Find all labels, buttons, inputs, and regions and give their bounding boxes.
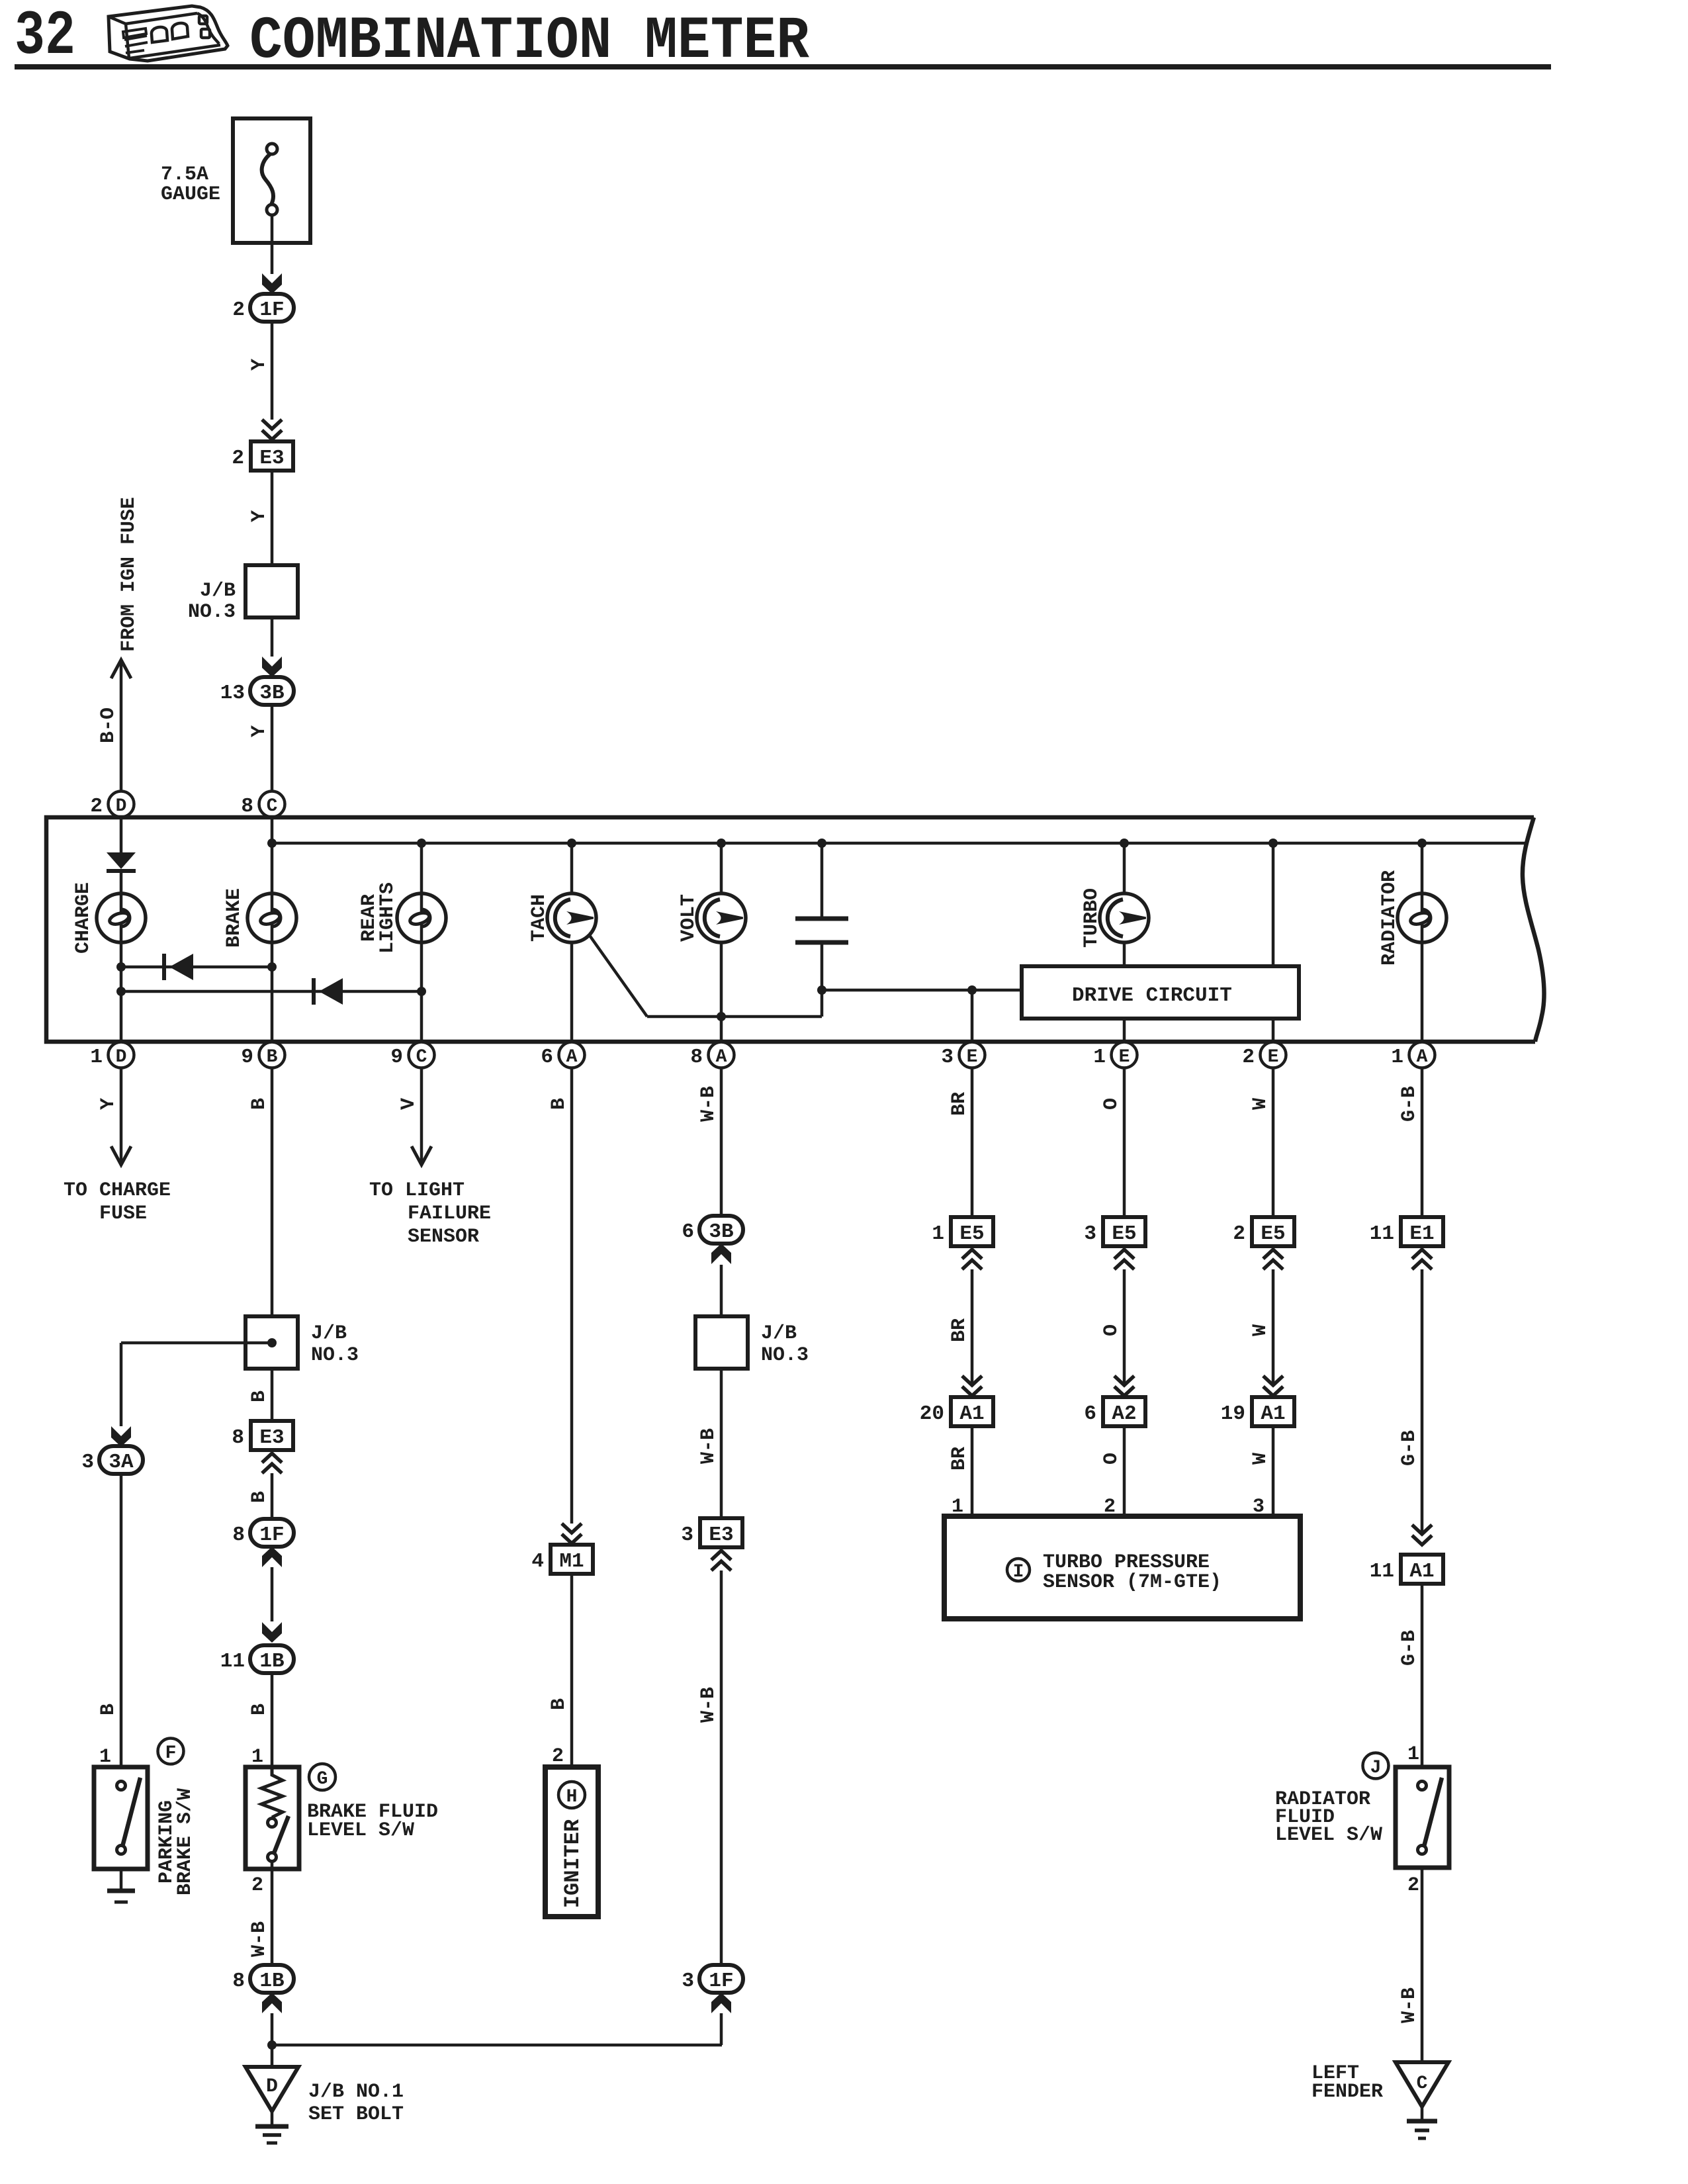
bus junction [817, 839, 826, 848]
connector 3(E5) [1084, 1217, 1145, 1246]
connector arrow into 1F [262, 273, 282, 294]
svg-text:W-B: W-B [697, 1086, 720, 1122]
header rule [15, 64, 1551, 69]
wire 3E3 to 3-1F [720, 1570, 723, 1965]
svg-text:2: 2 [232, 298, 245, 322]
svg-text:LEVEL S/W: LEVEL S/W [307, 1819, 414, 1842]
meter pin 3(E) [941, 1042, 985, 1069]
svg-text:2: 2 [232, 447, 244, 470]
indicator lamp REAR LIGHTS [397, 893, 446, 942]
bus junction [1120, 839, 1129, 848]
wire fuse to 1F [271, 243, 274, 274]
svg-text:NO.3: NO.3 [188, 601, 236, 623]
svg-text:O: O [1100, 1098, 1123, 1110]
svg-text:A2: A2 [1112, 1402, 1136, 1426]
igniter [545, 1767, 598, 1917]
svg-text:F: F [165, 1743, 177, 1764]
svg-text:2: 2 [251, 1874, 263, 1897]
svg-text:SET BOLT: SET BOLT [308, 2103, 404, 2126]
svg-text:NO.3: NO.3 [311, 1344, 359, 1367]
junction block J/B NO.3 (middle) [245, 1316, 298, 1369]
connector 2(E3) [232, 441, 293, 471]
connector 11(A1) [1370, 1555, 1443, 1584]
wire capacitor to tach line [821, 942, 824, 1017]
svg-text:2: 2 [1407, 1874, 1419, 1897]
svg-text:TO LIGHT: TO LIGHT [369, 1179, 465, 1202]
svg-text:E3: E3 [259, 1426, 284, 1449]
connector 6(A2) [1084, 1397, 1145, 1426]
svg-text:9: 9 [241, 1046, 253, 1069]
svg-text:FUSE: FUSE [99, 1203, 147, 1225]
wire 1F to ground bus [720, 2013, 723, 2045]
svg-text:W-B: W-B [697, 1687, 720, 1723]
wire J/B to 3B [271, 617, 274, 657]
gauge TACH [547, 893, 596, 942]
svg-text:2: 2 [1242, 1046, 1255, 1069]
wire bus to capacitor [821, 843, 824, 919]
svg-text:BRAKE S/W: BRAKE S/W [174, 1788, 197, 1895]
wire pin 1E to 3E5 [1123, 1068, 1126, 1217]
connector arrow into 3B [262, 657, 282, 677]
svg-text:A: A [1417, 1047, 1428, 1068]
svg-text:32: 32 [15, 1, 75, 72]
junction charge/diode row 1 [116, 962, 126, 972]
wire bus to REAR LIGHTS lamp [420, 843, 423, 894]
wire A1 to radiator switch [1421, 1584, 1424, 1767]
wire branch to 3A [120, 1343, 123, 1426]
svg-text:V: V [398, 1098, 420, 1110]
meter pin 2(E) [1242, 1042, 1286, 1069]
svg-text:W: W [1249, 1324, 1272, 1336]
bus junction [267, 839, 277, 848]
svg-text:H: H [566, 1787, 578, 1807]
svg-text:Y: Y [97, 1098, 120, 1110]
chevrons into 20A1 [962, 1376, 982, 1396]
svg-text:TURBO: TURBO [1081, 888, 1103, 948]
wire REAR LIGHTS lamp to pin 9C [420, 942, 423, 1043]
svg-text:B-O: B-O [97, 707, 120, 743]
svg-text:8: 8 [232, 1970, 245, 1993]
flow arrow to charge fuse [111, 1146, 131, 1165]
connector 2(E5) [1233, 1217, 1294, 1246]
svg-text:8: 8 [690, 1046, 703, 1069]
svg-text:B: B [97, 1704, 120, 1715]
svg-text:3: 3 [941, 1046, 954, 1069]
svg-text:C: C [1417, 2073, 1428, 2094]
ground (parking brake) [107, 1869, 135, 1902]
wire drive circuit to pin 2E [1272, 1019, 1275, 1043]
meter pin 6(A) [541, 1042, 584, 1069]
svg-text:FENDER: FENDER [1311, 2081, 1383, 2103]
internal supply bus wire [272, 842, 1526, 845]
svg-text:Y: Y [248, 510, 271, 522]
svg-text:E1: E1 [1409, 1222, 1434, 1246]
wire pin 2E to 2E5 [1272, 1068, 1275, 1217]
wire J/B to 3E3 [720, 1369, 723, 1518]
wire pin 1A to 11E1 [1421, 1068, 1424, 1217]
svg-text:3: 3 [1084, 1222, 1096, 1246]
wire bus to VOLT gauge [720, 843, 723, 894]
svg-text:D: D [266, 2075, 278, 2098]
svg-text:8: 8 [241, 795, 253, 818]
wire diode row 1 [121, 966, 272, 969]
svg-text:9: 9 [390, 1046, 403, 1069]
connector arrow into 8-1F [262, 1547, 282, 1567]
wire TACH to pin 6A [570, 942, 574, 1043]
combination meter unit box [46, 817, 1535, 1042]
svg-text:J/B: J/B [200, 580, 236, 602]
svg-text:B: B [248, 1098, 271, 1110]
chevrons below 2E5 [1263, 1250, 1283, 1269]
svg-text:13: 13 [220, 682, 245, 705]
wire 8E3 to 8-1F [271, 1473, 274, 1519]
svg-text:VOLT: VOLT [678, 894, 700, 942]
brake fluid level switch [245, 1767, 299, 1869]
connector 3(1F) [682, 1965, 743, 1993]
svg-text:C: C [416, 1047, 427, 1068]
chevrons into 6A2 [1114, 1376, 1134, 1396]
svg-text:TO CHARGE: TO CHARGE [64, 1179, 171, 1202]
ground (left fender) [1407, 2107, 1437, 2138]
wire radiator switch to left fender [1421, 1868, 1424, 2061]
bus junction [1268, 839, 1278, 848]
svg-text:IGNITER: IGNITER [560, 1819, 585, 1908]
svg-text:O: O [1100, 1453, 1123, 1465]
wire pin 1D to charge fuse [120, 1068, 123, 1163]
svg-text:BR: BR [948, 1092, 971, 1116]
connector 11(E1) [1370, 1217, 1443, 1246]
svg-text:BR: BR [948, 1447, 971, 1471]
wire ground bus horizontal [272, 2044, 722, 2047]
bus junction [1417, 839, 1427, 848]
svg-text:Y: Y [248, 359, 271, 371]
connector 8(E3) [232, 1421, 293, 1450]
svg-text:11: 11 [220, 1650, 245, 1673]
chevrons into 11A1 [1412, 1525, 1432, 1545]
svg-text:E: E [967, 1047, 978, 1068]
svg-text:C: C [267, 796, 278, 817]
svg-text:W-B: W-B [248, 1921, 271, 1957]
wire E3 to J/B No.3 [271, 471, 274, 565]
svg-text:2: 2 [90, 795, 103, 818]
wire E5 to A1 [971, 1269, 974, 1387]
wire 1B to ground point [271, 2013, 274, 2067]
svg-text:G-B: G-B [1398, 1630, 1421, 1666]
diode (rear lights to charge) [314, 978, 343, 1005]
svg-text:E3: E3 [709, 1524, 733, 1547]
svg-text:D: D [116, 796, 127, 817]
chevrons below 1E5 [962, 1250, 982, 1269]
meter pin 8(C) [241, 792, 285, 819]
svg-text:1: 1 [1407, 1743, 1419, 1766]
bus junction [717, 839, 726, 848]
combination meter icon [109, 6, 228, 61]
wire bus to TACH gauge [570, 843, 574, 894]
svg-text:G-B: G-B [1398, 1086, 1421, 1122]
bus junction [417, 839, 426, 848]
meter pin 1(D) [90, 1042, 134, 1069]
chevrons into 19A1 [1263, 1376, 1283, 1396]
svg-text:O: O [1100, 1324, 1123, 1336]
indicator lamp RADIATOR [1398, 893, 1446, 942]
svg-text:FAILURE: FAILURE [408, 1203, 491, 1225]
svg-text:B: B [248, 1704, 271, 1715]
connector 6(3B) [682, 1216, 743, 1244]
junction volt line [717, 1012, 726, 1021]
svg-text:G: G [317, 1769, 328, 1790]
svg-text:LIGHTS: LIGHTS [377, 882, 399, 954]
wire diode row 2 [121, 990, 422, 993]
wire VOLT to pin 8A [720, 942, 723, 1043]
svg-text:NO.3: NO.3 [761, 1344, 809, 1367]
wire TACH output horizontal [647, 1015, 822, 1019]
wire A2 to sensor pin 2 [1123, 1426, 1126, 1516]
wire bus to RADIATOR lamp [1421, 843, 1424, 894]
turbo pressure sensor [944, 1516, 1300, 1619]
svg-text:11: 11 [1370, 1222, 1394, 1246]
svg-text:BRAKE: BRAKE [223, 888, 245, 948]
svg-text:1: 1 [90, 1046, 103, 1069]
torn edge of meter box [1523, 817, 1544, 1042]
svg-text:3A: 3A [109, 1451, 134, 1474]
svg-text:B: B [548, 1098, 570, 1110]
svg-text:J/B: J/B [761, 1322, 797, 1345]
wire BRAKE lamp to pin 9B [271, 942, 274, 1043]
wire RADIATOR lamp to pin 1A [1421, 942, 1424, 1043]
meter pin 1(A) [1391, 1042, 1435, 1069]
svg-text:B: B [248, 1390, 271, 1402]
svg-text:4: 4 [531, 1550, 544, 1573]
svg-text:J/B NO.1: J/B NO.1 [308, 2081, 404, 2103]
wire pin 6A to M1 [570, 1068, 574, 1524]
junction ground bus [267, 2040, 277, 2050]
junction inside J/B [267, 1338, 277, 1347]
svg-text:3: 3 [682, 1970, 694, 1993]
svg-text:SENSOR: SENSOR [408, 1226, 479, 1248]
svg-text:1: 1 [1093, 1046, 1106, 1069]
connector arrow into 11-1B [262, 1622, 282, 1643]
gauge VOLT [697, 893, 746, 942]
svg-text:RADIATOR: RADIATOR [1378, 870, 1401, 966]
svg-text:M1: M1 [559, 1550, 584, 1573]
diode (charge line) [107, 852, 136, 871]
svg-text:7.5A: 7.5A [161, 163, 208, 186]
wire pin 3E to 1E5 [971, 1068, 974, 1217]
chevrons into M1 [562, 1524, 582, 1543]
wire bus to TURBO gauge [1123, 843, 1126, 894]
wire A1 to sensor pin 1 [971, 1426, 974, 1516]
wire junction to pin 3E [971, 990, 974, 1043]
junction block J/B NO.3 (top) [245, 565, 298, 617]
wire pin 9C to light failure sensor [420, 1068, 423, 1163]
svg-text:1F: 1F [259, 298, 284, 322]
parking brake switch [94, 1767, 148, 1869]
indicator lamp CHARGE [97, 893, 146, 942]
svg-text:2: 2 [1233, 1222, 1245, 1246]
meter pin 9(C) [390, 1042, 434, 1069]
wire 1B to brake fluid switch [271, 1673, 274, 1767]
svg-text:E5: E5 [1261, 1222, 1285, 1246]
wire to drive circuit [822, 989, 1022, 992]
capacitor [795, 919, 848, 942]
wire E1 to A1 [1421, 1269, 1424, 1535]
connector 3(3A) [81, 1446, 143, 1474]
wire 3B to J/B No.3 [720, 1265, 723, 1316]
wire J/B to 8E3 [271, 1369, 274, 1421]
connector 13(3B) [220, 677, 294, 705]
radiator fluid level switch [1396, 1767, 1449, 1868]
svg-text:3B: 3B [709, 1220, 733, 1244]
svg-text:6: 6 [682, 1220, 694, 1244]
svg-text:CHARGE: CHARGE [72, 882, 95, 954]
ground (set bolt) [255, 2111, 289, 2143]
svg-text:E: E [1119, 1047, 1130, 1068]
svg-text:8: 8 [232, 1524, 245, 1547]
svg-text:W: W [1249, 1453, 1272, 1465]
svg-text:19: 19 [1221, 1402, 1245, 1426]
svg-text:E3: E3 [259, 447, 284, 470]
junction capacitor/drive [817, 985, 826, 995]
svg-text:3: 3 [681, 1524, 693, 1547]
gauge TURBO [1100, 893, 1149, 942]
chevrons below 3E5 [1114, 1250, 1134, 1269]
svg-text:6: 6 [541, 1046, 553, 1069]
junction block J/B NO.3 (right) [695, 1316, 748, 1369]
drive circuit block [1022, 966, 1299, 1019]
connector 20(A1) [920, 1397, 993, 1426]
connector 1(E5) [932, 1217, 993, 1246]
connector 11(1B) [220, 1645, 294, 1673]
svg-text:A1: A1 [959, 1402, 984, 1426]
bus junction [567, 839, 576, 848]
svg-text:SENSOR (7M-GTE): SENSOR (7M-GTE) [1043, 1571, 1222, 1594]
chevrons below 3E3 [711, 1551, 731, 1570]
connector 19(A1) [1221, 1397, 1294, 1426]
wire pin 9B to J/B No.3 [271, 1068, 274, 1316]
svg-text:1F: 1F [709, 1970, 733, 1993]
junction brake/diode row 1 [267, 962, 277, 972]
connector 3(E3) [681, 1518, 742, 1547]
svg-text:DRIVE CIRCUIT: DRIVE CIRCUIT [1072, 984, 1232, 1007]
svg-text:W: W [1249, 1098, 1272, 1110]
svg-text:E: E [1268, 1047, 1279, 1068]
wire 3A to parking brake switch [120, 1474, 123, 1767]
meter pin 2(D) [90, 792, 134, 819]
svg-text:J: J [1370, 1758, 1382, 1778]
svg-text:E5: E5 [959, 1222, 984, 1246]
wire 1F to E3 [271, 322, 274, 420]
svg-text:2: 2 [552, 1745, 564, 1768]
svg-text:LEVEL S/W: LEVEL S/W [1275, 1824, 1382, 1846]
wire pin 8C to BRAKE lamp [271, 817, 274, 894]
svg-text:11: 11 [1370, 1560, 1394, 1583]
chevrons below 8E3 [262, 1453, 282, 1473]
wire bus to drive circuit [1272, 843, 1275, 966]
meter pin 8(A) [690, 1042, 734, 1069]
svg-text:D: D [116, 1047, 127, 1068]
flow arrow from IGN fuse [111, 660, 131, 678]
svg-text:B: B [248, 1491, 271, 1503]
junction charge/diode row 2 [116, 987, 126, 996]
svg-text:A: A [566, 1047, 578, 1068]
svg-text:FROM IGN FUSE: FROM IGN FUSE [118, 497, 140, 652]
svg-text:E5: E5 [1112, 1222, 1136, 1246]
chevrons below 11E1 [1412, 1250, 1432, 1269]
wire pin 8A to 6-3B [720, 1068, 723, 1216]
svg-text:1B: 1B [259, 1970, 284, 1993]
connector 2(1F) [232, 294, 294, 322]
wire J/B branch left [121, 1342, 272, 1345]
svg-text:1B: 1B [259, 1650, 284, 1673]
svg-text:1: 1 [1391, 1046, 1403, 1069]
connector arrow into 8-1B [262, 1993, 282, 2013]
svg-text:6: 6 [1084, 1402, 1096, 1426]
junction rear-lights/diode row 2 [417, 987, 426, 996]
svg-text:1F: 1F [259, 1524, 284, 1547]
svg-text:BR: BR [948, 1318, 971, 1342]
chevrons into E3 [262, 420, 282, 439]
connector arrow into 6-3B [711, 1244, 731, 1264]
ground bolt D (J/B No.1 set bolt) [245, 2067, 298, 2111]
svg-text:G-B: G-B [1398, 1430, 1421, 1466]
circled G [309, 1764, 335, 1790]
wire M1 to igniter [570, 1574, 574, 1767]
wire diode to CHARGE lamp [120, 871, 123, 894]
connector arrow into 3-1F [711, 1993, 731, 2013]
wire A1 to sensor pin 3 [1272, 1426, 1275, 1516]
svg-text:B: B [548, 1698, 570, 1710]
svg-text:3B: 3B [259, 682, 284, 705]
svg-text:GAUGE: GAUGE [161, 183, 220, 206]
svg-text:A1: A1 [1261, 1402, 1285, 1426]
svg-text:3: 3 [81, 1451, 94, 1474]
connector arrow into 3A [111, 1426, 131, 1447]
connector 8(1B) [232, 1965, 294, 1993]
wire pin 2D to diode [120, 817, 123, 854]
circled I [1007, 1559, 1030, 1582]
meter pin 9(B) [241, 1042, 285, 1069]
connector 8(1F) [232, 1519, 294, 1547]
svg-text:1: 1 [932, 1222, 944, 1246]
wire TACH output diagonal [589, 934, 647, 1017]
wire 8-1F to 11-1B [271, 1567, 274, 1621]
svg-text:Y: Y [248, 725, 271, 737]
circled J [1363, 1753, 1389, 1779]
svg-text:20: 20 [920, 1402, 944, 1426]
wire CHARGE lamp to pin 1D [120, 942, 123, 1043]
fuse 7.5A GAUGE [233, 118, 310, 243]
circled F [158, 1739, 184, 1764]
wire 3B to meter pin 8C [271, 705, 274, 792]
svg-text:8: 8 [232, 1426, 244, 1449]
svg-text:W-B: W-B [1398, 1987, 1421, 2023]
junction 3E line [967, 985, 977, 995]
flow arrow to light failure sensor [412, 1146, 431, 1165]
wire brake fluid switch to 8-1B [271, 1869, 274, 1965]
circled H [558, 1782, 585, 1808]
svg-text:TURBO PRESSURE: TURBO PRESSURE [1043, 1551, 1210, 1574]
svg-text:TACH: TACH [528, 894, 551, 942]
wire TURBO to drive circuit [1123, 942, 1126, 966]
wire E5 to A1 [1272, 1269, 1275, 1387]
svg-text:I: I [1013, 1562, 1024, 1582]
ground bolt C (left fender) [1396, 2062, 1448, 2107]
svg-text:A1: A1 [1409, 1560, 1434, 1583]
svg-text:W-B: W-B [697, 1428, 720, 1464]
diode (brake to charge) [164, 954, 193, 980]
svg-text:A: A [716, 1047, 727, 1068]
wire drive circuit to pin 1E [1123, 1019, 1126, 1043]
